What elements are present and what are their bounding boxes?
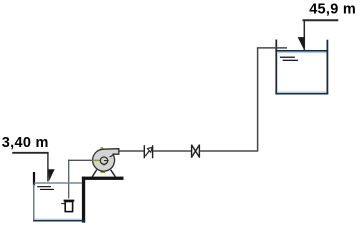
lower tank bottom xyxy=(33,219,85,220)
pump P1 casing volute xyxy=(93,149,119,171)
svg-text:45,9 m: 45,9 m xyxy=(309,1,356,17)
lower tank level marks xyxy=(37,187,54,190)
upper tank water surface xyxy=(275,51,326,92)
level arrow upper tank xyxy=(298,37,305,50)
lower tank left wall cap (thick) xyxy=(33,172,35,185)
pump olive accents xyxy=(100,148,105,172)
level arrow lower tank xyxy=(48,169,54,181)
lower tank water surface xyxy=(34,182,82,184)
lower tank left wall xyxy=(33,184,35,221)
pump base platform xyxy=(82,177,124,180)
discharge pipe: riser and top run into tank xyxy=(257,48,287,151)
discharge pipe horizontal run xyxy=(119,150,258,152)
pump legs xyxy=(92,170,115,177)
leader line 3,40 m xyxy=(12,152,48,182)
check valve V1 xyxy=(144,145,152,158)
foot valve / strainer xyxy=(61,201,74,212)
suction pipe xyxy=(68,160,93,199)
pedestal wall (tank right wall, thick) xyxy=(82,177,85,223)
svg-text:3,40 m: 3,40 m xyxy=(2,135,49,151)
suction line inside pump (olive) xyxy=(92,159,101,161)
leader line 45,9 m xyxy=(303,20,339,51)
upper tank walls xyxy=(275,40,328,95)
upper tank level marks xyxy=(280,57,298,60)
pump volute tongue xyxy=(110,154,114,156)
gate valve V2 xyxy=(192,145,200,158)
pump impeller hub xyxy=(100,157,109,165)
